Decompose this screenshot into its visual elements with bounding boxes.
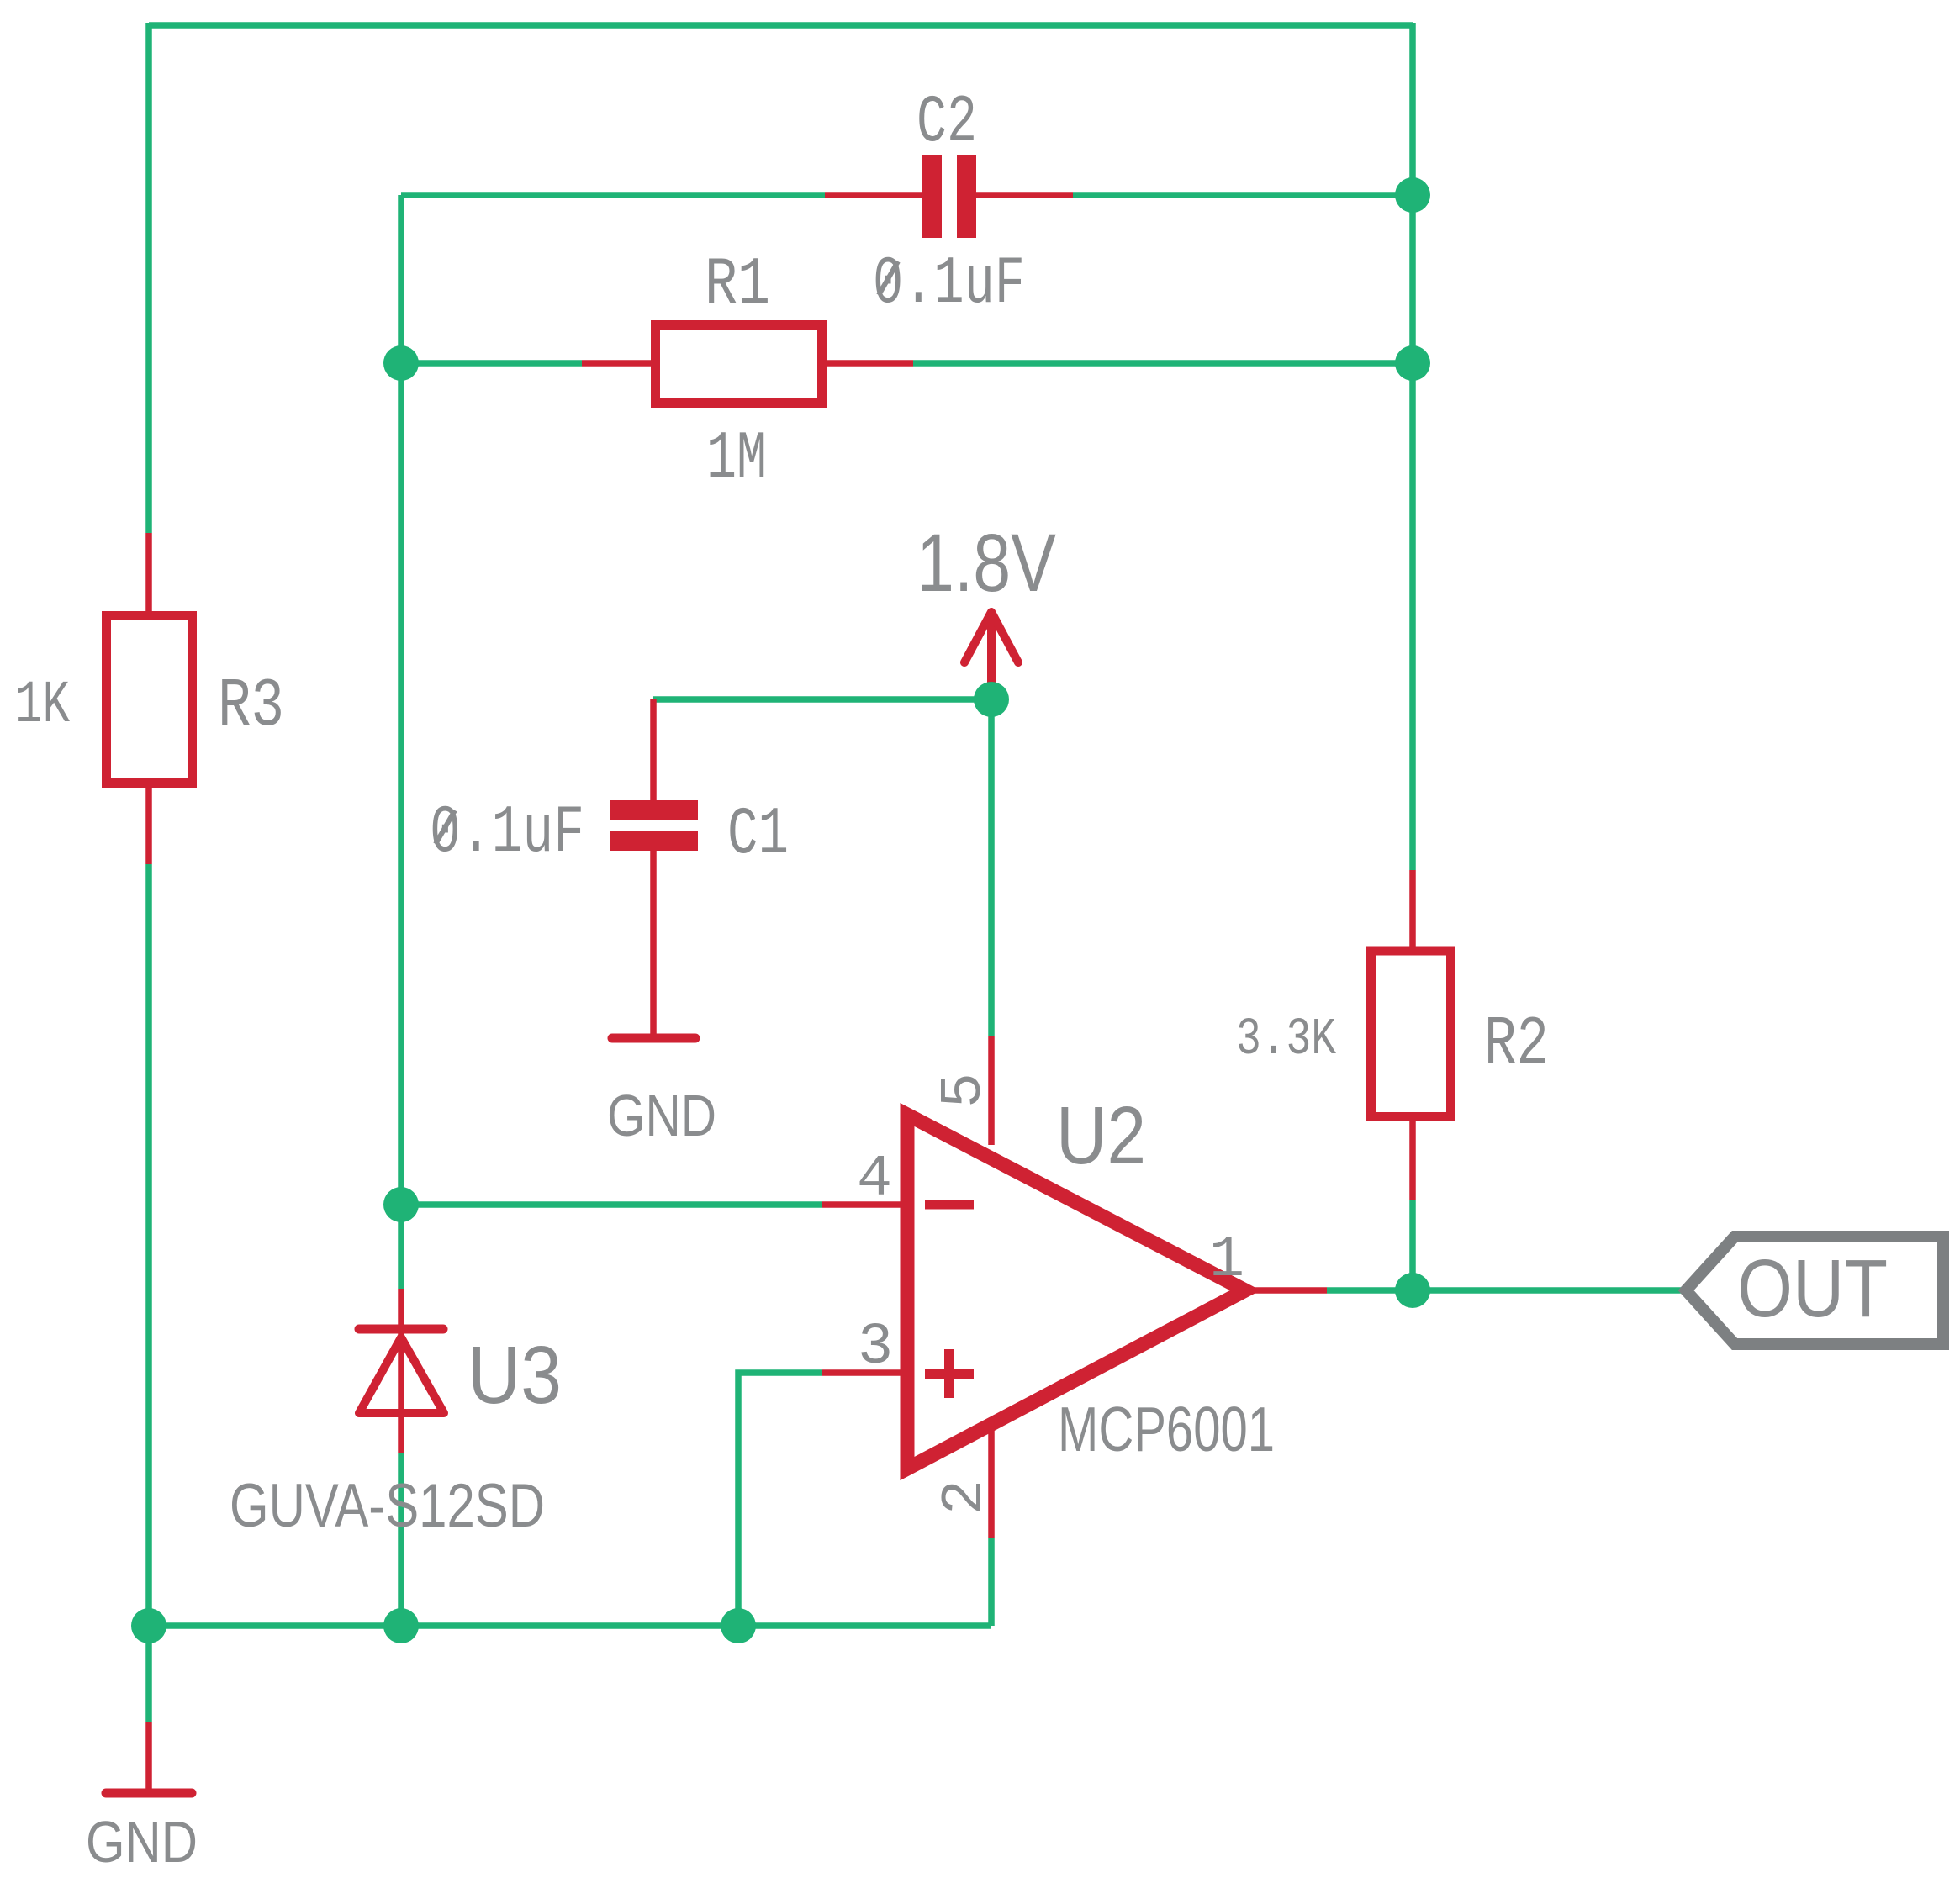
- svg-text:R1: R1: [705, 247, 770, 324]
- wire pin2 vertical green: [988, 1538, 995, 1626]
- label 1.8V: [917, 517, 1056, 609]
- svg-text:GUVA-S12SD: GUVA-S12SD: [230, 1472, 545, 1540]
- ground symbol (C1): [612, 1034, 695, 1043]
- wire plus input row: [738, 1373, 822, 1626]
- pin label 5: [932, 1073, 998, 1108]
- pin label 2: [932, 1479, 999, 1515]
- wire R1 row right: [913, 360, 1413, 367]
- wire left vertical upper: [145, 23, 152, 533]
- wire right vertical upper: [1409, 23, 1416, 870]
- wire C1 top row: [653, 696, 991, 703]
- svg-text:0.1uF: 0.1uF: [430, 795, 584, 872]
- wire C2 row right: [1073, 192, 1413, 198]
- svg-text:GND: GND: [86, 1809, 198, 1875]
- resistor R1: [582, 325, 913, 403]
- junction node C2 right: [1395, 177, 1430, 213]
- wire bottom row: [149, 1622, 991, 1629]
- label U2: [1056, 1089, 1146, 1181]
- wire top horizontal: [149, 22, 1413, 29]
- label 3.3K: [1236, 1010, 1337, 1069]
- svg-text:U3: U3: [468, 1329, 562, 1421]
- svg-text:R3: R3: [218, 667, 284, 746]
- svg-text:3.3K: 3.3K: [1236, 1010, 1337, 1069]
- label U3: [468, 1329, 562, 1421]
- wire output row: [1327, 1287, 1686, 1294]
- photodiode U3: [359, 1289, 444, 1453]
- svg-text:U2: U2: [1056, 1089, 1146, 1181]
- label C1: [727, 797, 789, 873]
- svg-text:1K: 1K: [15, 672, 70, 740]
- wire minus input row: [401, 1201, 822, 1208]
- label R2: [1484, 1005, 1549, 1084]
- svg-text:5: 5: [932, 1073, 998, 1108]
- capacitor C1: [610, 699, 698, 1034]
- wire vertical x477 below diode: [398, 1453, 404, 1626]
- label C2: [917, 85, 977, 161]
- resistor R3: [107, 533, 193, 864]
- label MCP6001: [1058, 1394, 1275, 1464]
- junction node minus input: [383, 1187, 419, 1222]
- wire left vertical lower: [145, 864, 152, 1722]
- wire vertical x477: [398, 195, 404, 1289]
- svg-text:3: 3: [858, 1315, 893, 1381]
- wire R1 row left: [401, 360, 582, 367]
- svg-text:1M: 1M: [706, 421, 767, 498]
- wire right vertical lower: [1409, 1200, 1416, 1290]
- svg-text:1.8V: 1.8V: [917, 517, 1056, 609]
- junction node diode bottom: [383, 1608, 419, 1643]
- pin label 1: [1209, 1227, 1244, 1294]
- junction node ground tap: [131, 1608, 166, 1643]
- svg-text:0.1uF: 0.1uF: [873, 246, 1025, 323]
- junction node R1 left: [383, 345, 419, 381]
- junction node plus branch: [721, 1608, 756, 1643]
- wire C2 row left: [401, 192, 825, 198]
- label 0.1uF (C2): [873, 246, 1025, 323]
- wire pin5 vertical green: [988, 699, 995, 1036]
- svg-text:OUT: OUT: [1737, 1242, 1888, 1334]
- svg-text:C2: C2: [917, 85, 977, 161]
- connector OUT flag: [1686, 1237, 1943, 1344]
- resistor R2: [1371, 870, 1451, 1200]
- op-amp U2: [822, 1036, 1327, 1538]
- label GUVA-S12SD: [230, 1472, 545, 1540]
- junction node 1.8V: [974, 682, 1009, 717]
- label 1M: [706, 421, 767, 498]
- pin label 4: [857, 1147, 892, 1213]
- junction node output: [1395, 1273, 1430, 1308]
- svg-text:4: 4: [857, 1147, 892, 1213]
- ground symbol (bottom left): [106, 1722, 192, 1793]
- svg-text:C1: C1: [727, 797, 789, 873]
- label GND (bottom left): [86, 1809, 198, 1875]
- svg-text:MCP6001: MCP6001: [1058, 1394, 1275, 1464]
- power symbol 1.8V arrow: [964, 612, 1018, 688]
- label R3: [218, 667, 284, 746]
- junction node R1 right: [1395, 345, 1430, 381]
- svg-text:GND: GND: [607, 1083, 716, 1148]
- label 0.1uF (C1): [430, 795, 584, 872]
- svg-text:R2: R2: [1484, 1005, 1549, 1084]
- label GND (C1): [607, 1083, 716, 1148]
- svg-text:1: 1: [1209, 1227, 1244, 1294]
- svg-text:2: 2: [932, 1479, 999, 1515]
- pin label 3: [858, 1315, 893, 1381]
- label R1: [705, 247, 770, 324]
- capacitor C2: [825, 155, 1073, 238]
- label 1K: [15, 672, 70, 740]
